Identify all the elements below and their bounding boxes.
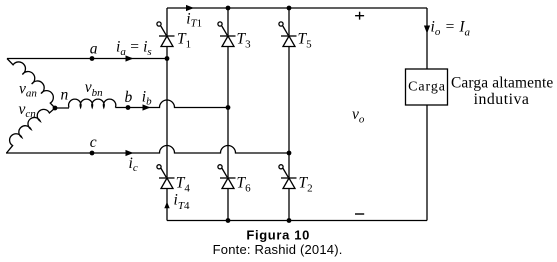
svg-text:Carga altamente: Carga altamente (451, 74, 553, 91)
svg-text:ic: ic (129, 155, 138, 174)
top bus junction dot at leg3 (287, 6, 292, 11)
inductor winding c (v_cn) (7, 108, 56, 153)
load box Carga (406, 69, 448, 105)
label minus (355, 213, 364, 214)
wire top bus (167, 7, 427, 9)
node b junction dot (126, 105, 131, 110)
thyristor T6 (218, 165, 236, 189)
arrow i_a on phase a (126, 55, 134, 61)
svg-text:c: c (90, 134, 97, 151)
svg-text:vbn: vbn (85, 79, 103, 99)
wire bottom bus (167, 220, 427, 222)
node n junction dot (53, 106, 58, 111)
wire phase b horizontal with hop over leg1 (55, 100, 228, 108)
node c junction dot (90, 151, 95, 156)
arrow i_b on phase b (143, 104, 151, 110)
arrow i_T4 on leg1 (164, 202, 169, 209)
svg-text:T5: T5 (298, 31, 313, 51)
label plus (355, 12, 364, 20)
svg-text:ib: ib (142, 89, 152, 108)
node c to leg3 junction dot (287, 151, 292, 156)
thyristor T2 (279, 165, 297, 189)
bottom bus junction dot at leg3 (287, 218, 292, 223)
inductor winding a (v_an) (7, 59, 55, 109)
svg-text:indutiva: indutiva (474, 91, 530, 108)
thyristor T3 (218, 22, 236, 47)
arrow i_T1 on top bus (186, 5, 194, 11)
node a to leg1 junction dot (165, 56, 170, 61)
arrow i_c on phase c (126, 150, 134, 156)
svg-text:vo: vo (352, 106, 365, 126)
thyristor T4 (157, 165, 175, 189)
wire leg1 phase a vertical (166, 8, 168, 221)
svg-text:T6: T6 (237, 175, 252, 195)
svg-text:Figura 10: Figura 10 (246, 228, 310, 243)
inductor winding b (v_bn) (69, 99, 116, 107)
svg-text:T1: T1 (177, 31, 191, 51)
svg-text:iT1: iT1 (186, 11, 202, 30)
wire leg3 phase c vertical (288, 8, 290, 221)
svg-text:b: b (125, 89, 133, 106)
wire right side top (426, 8, 428, 69)
bottom bus junction dot at leg2 (226, 218, 231, 223)
svg-text:vcn: vcn (19, 101, 37, 120)
svg-text:T2: T2 (299, 175, 313, 195)
top bus junction dot at leg2 (226, 6, 231, 11)
svg-text:T4: T4 (176, 175, 191, 195)
arrow i_o on right wire (424, 26, 430, 34)
svg-text:Fonte: Rashid (2014).: Fonte: Rashid (2014). (213, 242, 343, 257)
node a junction dot (90, 56, 95, 61)
svg-text:T3: T3 (237, 31, 252, 51)
wire phase c horizontal with hops over leg1 and leg2 (6, 146, 289, 153)
thyristor T1 (157, 22, 175, 47)
thyristor T5 (279, 22, 297, 47)
wire leg2 phase b vertical (227, 8, 229, 221)
svg-text:ia=is: ia=is (116, 39, 152, 58)
svg-text:Carga: Carga (408, 80, 446, 95)
node b to leg2 junction dot (226, 105, 231, 110)
wire phase a horizontal (7, 58, 167, 60)
svg-text:io=Ia: io=Ia (431, 19, 471, 39)
wire right side bottom (426, 105, 428, 221)
svg-text:n: n (61, 86, 69, 103)
svg-text:a: a (90, 40, 98, 57)
svg-text:van: van (19, 81, 37, 100)
